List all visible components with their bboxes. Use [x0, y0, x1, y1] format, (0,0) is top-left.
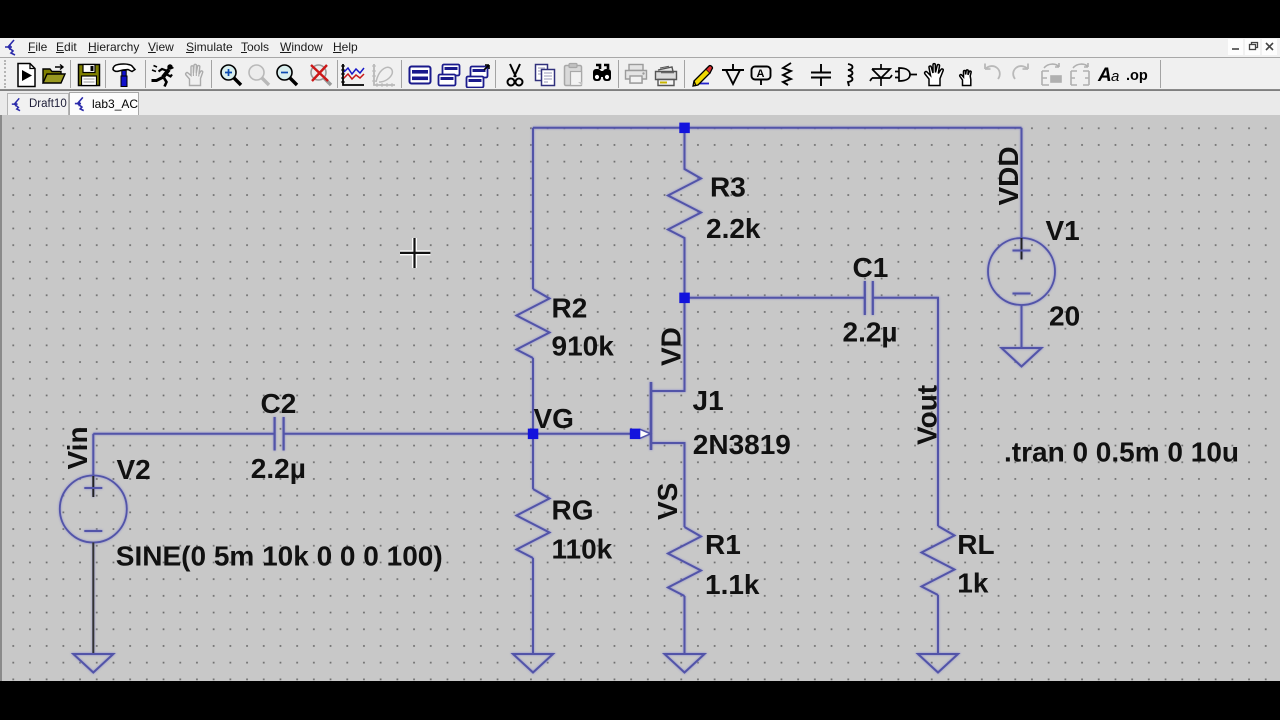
- svg-text:SINE(0 5m 10k 0 0 0 100): SINE(0 5m 10k 0 0 0 100): [116, 541, 443, 572]
- resistor RG: [517, 489, 550, 558]
- window title bar (black): [0, 0, 1280, 38]
- wire R1 to ground: [684, 596, 686, 654]
- svg-text:910k: 910k: [552, 331, 615, 362]
- wire R2 bottom to VG: [532, 358, 534, 434]
- svg-text:a: a: [1111, 68, 1119, 85]
- svg-text:A: A: [757, 68, 765, 80]
- svg-text:1.1k: 1.1k: [705, 569, 760, 600]
- svg-text:2.2µ: 2.2µ: [843, 317, 898, 348]
- wire top rail: [533, 127, 1022, 129]
- window control buttons: [0, 0, 1280, 1]
- node VG: [528, 429, 539, 440]
- wire VG to RG: [532, 434, 534, 489]
- svg-text:V2: V2: [117, 454, 151, 485]
- svg-text:C2: C2: [261, 388, 297, 419]
- node top rail / R3: [679, 123, 690, 134]
- ground (RL): [918, 654, 958, 673]
- bottom black bar: [0, 681, 1280, 720]
- wire V2 to ground: [92, 543, 94, 655]
- wire RG bottom to ground: [532, 558, 534, 654]
- resistor R3: [668, 128, 701, 298]
- transistor J1 2N3819: [650, 382, 653, 450]
- tab bar: [0, 90, 1280, 115]
- menu bar: [0, 38, 1280, 57]
- toolbar: [0, 57, 1280, 90]
- svg-text:20: 20: [1049, 301, 1080, 332]
- resistor R1: [668, 527, 701, 596]
- ground (R1): [665, 654, 705, 673]
- svg-text:J1: J1: [693, 385, 724, 416]
- active tab lab3_AC: [69, 92, 139, 116]
- ground (RG): [513, 654, 553, 673]
- svg-text:.op: .op: [1126, 68, 1148, 84]
- wire C2 to VG node: [284, 433, 635, 435]
- wire V1 to ground: [1021, 305, 1023, 348]
- svg-text:R3: R3: [710, 172, 746, 203]
- wire top rail corner down to V1: [1021, 128, 1023, 238]
- voltage source V2: [60, 476, 127, 543]
- svg-text:C1: C1: [853, 252, 889, 283]
- svg-text:2N3819: 2N3819: [693, 429, 791, 460]
- svg-text:A: A: [1097, 65, 1112, 86]
- wire V2 top to C2: [93, 433, 274, 435]
- schematic canvas: [0, 115, 1280, 681]
- inactive tab Draft10: [7, 93, 69, 116]
- wire RL to ground: [937, 595, 939, 654]
- capacitor C1: [865, 281, 873, 315]
- resistor R2: [517, 289, 550, 358]
- svg-text:VDD: VDD: [993, 146, 1024, 205]
- svg-text:Vin: Vin: [62, 426, 93, 469]
- wire left vertical (top rail to R2): [532, 128, 534, 289]
- wire VD node to C1: [685, 297, 865, 299]
- node VD: [679, 293, 690, 304]
- node gate: [630, 429, 641, 440]
- svg-text:.tran 0 0.5m 0 10u: .tran 0 0.5m 0 10u: [1004, 437, 1239, 468]
- svg-text:R2: R2: [552, 293, 588, 324]
- svg-text:VS: VS: [652, 483, 683, 520]
- svg-text:R1: R1: [705, 529, 741, 560]
- svg-text:Vout: Vout: [912, 385, 943, 445]
- svg-text:2.2k: 2.2k: [706, 213, 761, 244]
- window left edge: [0, 115, 2, 681]
- wire C1 to corner down to RL: [873, 298, 938, 526]
- svg-text:VD: VD: [656, 327, 687, 366]
- svg-text:1k: 1k: [957, 568, 989, 599]
- ground (V1): [1002, 348, 1042, 367]
- svg-text:V1: V1: [1046, 215, 1080, 246]
- svg-text:2.2µ: 2.2µ: [251, 453, 306, 484]
- svg-text:VG: VG: [534, 403, 574, 434]
- svg-text:RL: RL: [957, 529, 994, 560]
- mouse crosshair cursor: [400, 238, 430, 268]
- svg-text:110k: 110k: [552, 534, 613, 565]
- svg-text:RG: RG: [552, 495, 594, 526]
- ground (V2): [73, 654, 113, 673]
- resistor RL: [922, 526, 955, 595]
- capacitor C2: [275, 417, 284, 451]
- voltage source V1: [988, 238, 1055, 305]
- wire V2 stub: [92, 434, 94, 476]
